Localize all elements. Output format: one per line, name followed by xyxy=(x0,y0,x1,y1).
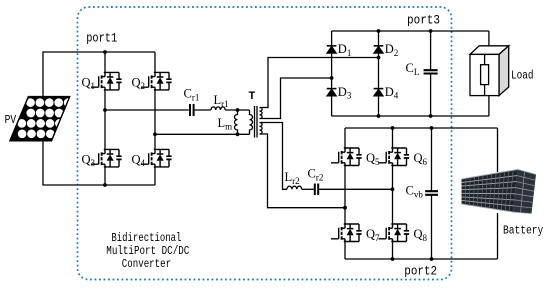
wire port2 top rail xyxy=(345,127,498,129)
svg-text:Q6: Q6 xyxy=(414,151,428,167)
svg-text:port1: port1 xyxy=(86,32,117,46)
diode D3 xyxy=(327,89,337,96)
transistor Q8 xyxy=(379,224,410,242)
junction port2 top right leg xyxy=(391,126,395,130)
junction port3 bottom CL xyxy=(429,114,433,118)
diode D4 xyxy=(374,89,384,96)
transistor Q1 xyxy=(91,72,122,90)
inductor Lm xyxy=(235,110,238,134)
transformer T primary winding xyxy=(250,110,253,134)
junction port3 bottom right leg xyxy=(377,114,381,118)
capacitor Cr2 xyxy=(315,184,318,196)
wire port2 bottom rail xyxy=(345,258,498,260)
transformer T lower secondary winding xyxy=(260,123,263,135)
junction port2 bottom right leg xyxy=(391,257,395,261)
diode D1 xyxy=(327,46,337,53)
svg-text:Cvb: Cvb xyxy=(406,184,424,200)
junction port2 top Cvb xyxy=(430,126,434,130)
transistor Q5 xyxy=(331,148,362,166)
junction left leg midpoint xyxy=(103,108,107,112)
junction right leg AC input xyxy=(377,56,381,60)
svg-text:Q1: Q1 xyxy=(82,75,96,91)
transistor Q7 xyxy=(331,224,362,242)
wire D-bridge left leg xyxy=(331,31,333,116)
svg-text:Q8: Q8 xyxy=(414,227,428,243)
junction Q-bridge left leg midpoint xyxy=(343,206,347,210)
wire port3 bottom rail xyxy=(332,115,489,117)
wire Lr2 to Cr2 xyxy=(302,188,314,190)
resistor inside load xyxy=(481,54,489,95)
wire Cr1 to Lr1 xyxy=(195,109,211,111)
svg-text:Q4: Q4 xyxy=(132,152,146,168)
svg-text:Cr2: Cr2 xyxy=(308,167,324,183)
svg-text:Lr1: Lr1 xyxy=(214,93,229,109)
junction Lm top xyxy=(236,108,240,112)
wire PV positive to port1 top rail xyxy=(43,52,155,97)
capacitor Cr1 xyxy=(190,104,194,116)
wire Q-bridge right leg xyxy=(392,128,394,259)
diode D2 xyxy=(374,46,384,53)
svg-text:Battery: Battery xyxy=(503,224,543,238)
wire Cr2 to Q-bridge right leg midpoint xyxy=(319,188,392,190)
wire battery positive lead xyxy=(497,128,499,172)
svg-text:Q5: Q5 xyxy=(366,151,380,167)
capacitor Cvb leads xyxy=(431,128,433,259)
transistor Q3 xyxy=(91,149,122,167)
wire upper secondary top to D-bridge right leg xyxy=(260,58,379,108)
junction left leg AC input xyxy=(330,76,334,80)
load box xyxy=(470,46,509,96)
wire load top lead xyxy=(488,31,490,46)
svg-text:Q7: Q7 xyxy=(366,227,380,243)
inductor Lr2 xyxy=(287,186,302,189)
wire lower secondary top to Lr2 xyxy=(260,123,288,190)
wire left leg mid to Cr1 xyxy=(105,109,189,111)
wire Lr1 to transformer primary xyxy=(225,109,249,111)
wire port1 right bridge leg xyxy=(154,52,156,185)
svg-text:Q3: Q3 xyxy=(82,152,96,168)
transistor Q4 xyxy=(141,149,172,167)
capacitor Cvb xyxy=(425,191,438,195)
junction port1 bottom left leg xyxy=(103,183,107,187)
junction port1 top left leg xyxy=(103,50,107,54)
converter boundary (dashed) xyxy=(78,7,452,280)
wire lower secondary bottom to Q-bridge left leg xyxy=(260,134,346,208)
capacitor CL leads xyxy=(430,31,432,116)
junction Q-bridge right leg midpoint xyxy=(391,187,395,191)
wire D-bridge right leg xyxy=(378,31,380,116)
transformer T upper secondary winding xyxy=(260,108,263,119)
wire upper secondary bottom to D-bridge left leg xyxy=(260,78,332,119)
svg-text:Load: Load xyxy=(511,69,534,83)
wire Q-bridge left leg xyxy=(344,128,346,259)
svg-text:port3: port3 xyxy=(407,13,440,27)
svg-text:Q2: Q2 xyxy=(132,75,146,91)
capacitor CL xyxy=(424,70,438,73)
svg-text:MultiPort DC/DC: MultiPort DC/DC xyxy=(106,244,189,258)
svg-text:Lr2: Lr2 xyxy=(285,170,300,186)
svg-text:D2: D2 xyxy=(385,42,399,58)
svg-text:Bidirectional: Bidirectional xyxy=(111,231,181,245)
svg-text:Cr1: Cr1 xyxy=(184,87,200,103)
svg-text:CL: CL xyxy=(406,61,420,77)
battery bank (3D) xyxy=(462,170,537,214)
svg-text:port2: port2 xyxy=(404,265,437,279)
wire PV negative to port1 bottom rail xyxy=(43,141,155,185)
PV panel xyxy=(10,97,73,141)
transistor Q6 xyxy=(379,148,410,166)
junction Lm bottom xyxy=(236,132,240,136)
wire right leg mid to primary bottom xyxy=(155,133,250,135)
svg-text:T: T xyxy=(249,90,256,102)
wire load bottom lead xyxy=(488,96,490,116)
wire port1 left bridge leg xyxy=(104,52,106,185)
svg-text:D1: D1 xyxy=(338,42,352,58)
svg-text:PV: PV xyxy=(5,113,17,127)
wire port3 top rail xyxy=(332,30,489,32)
transistor Q2 xyxy=(141,72,172,90)
transformer T core xyxy=(255,106,258,138)
junction port3 top CL xyxy=(429,29,433,33)
junction port3 top right leg xyxy=(377,29,381,33)
svg-text:D3: D3 xyxy=(338,85,352,101)
junction right leg midpoint xyxy=(153,132,157,136)
svg-text:D4: D4 xyxy=(385,85,399,101)
svg-text:Lm: Lm xyxy=(218,116,233,132)
junction port2 bottom Cvb xyxy=(430,257,434,261)
inductor Lr1 xyxy=(211,107,225,110)
svg-text:Converter: Converter xyxy=(122,257,171,271)
wire battery negative lead xyxy=(497,213,499,259)
